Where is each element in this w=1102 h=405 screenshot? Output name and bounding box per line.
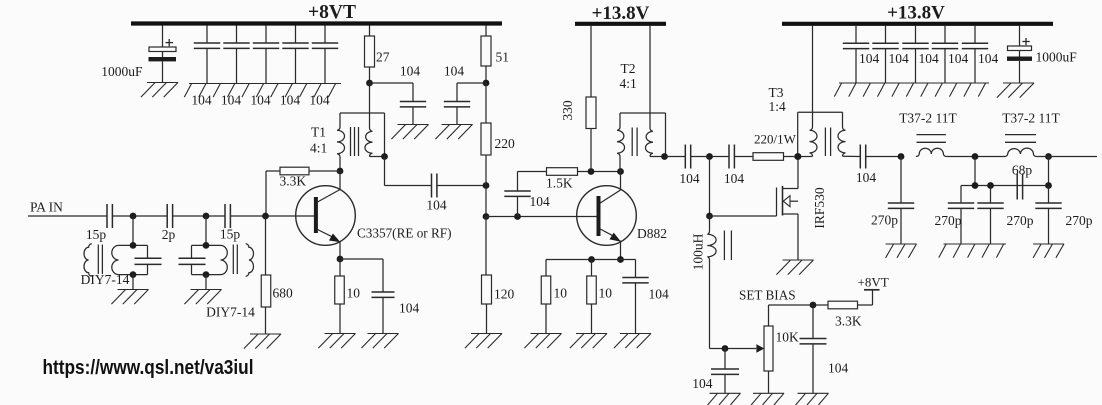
- svg-text:+13.8V: +13.8V: [592, 3, 650, 24]
- value label 104: [679, 171, 700, 186]
- resistor 220: [481, 83, 491, 186]
- svg-text:https://www.qsl.net/va3iul: https://www.qsl.net/va3iul: [43, 356, 254, 379]
- wire: [112, 215, 167, 217]
- value label 270p: [871, 213, 898, 228]
- ref label DIY7-14 #1: [81, 272, 130, 287]
- svg-text:IRF530: IRF530: [812, 187, 827, 229]
- svg-text:68p: 68p: [1012, 163, 1033, 178]
- svg-text:104: 104: [250, 93, 271, 108]
- value label 104 #5: [309, 93, 330, 108]
- wire PA IN: [28, 215, 107, 217]
- ground: [997, 83, 1034, 98]
- node Q1 base / 680: [262, 213, 269, 220]
- capacitor 104 bias #1: [711, 349, 739, 394]
- svg-text:104: 104: [859, 51, 880, 66]
- wire: [734, 156, 753, 158]
- capacitor C104 bank-right #4: [932, 26, 958, 83]
- svg-text:+8VT: +8VT: [858, 274, 889, 289]
- url text: [43, 356, 254, 379]
- ground bar left bank: [184, 84, 341, 98]
- wire T1 feed: [369, 83, 371, 128]
- node gate branch: [706, 153, 713, 160]
- capacitor C104 bank-right #1: [843, 26, 869, 83]
- value label 15p: [220, 227, 241, 242]
- node T3 primary: [794, 153, 801, 160]
- capacitor 104 Q2 base: [504, 172, 530, 217]
- transformer T3: [798, 112, 861, 156]
- wire: [340, 258, 383, 260]
- capacitor 15p series #2: [225, 204, 230, 228]
- ref label T1: [311, 125, 326, 140]
- value label 15p: [86, 227, 107, 242]
- capacitor C104 bank-right #5: [962, 26, 988, 83]
- ratio label 1:4: [769, 99, 787, 114]
- capacitor 270p #1: [888, 157, 914, 245]
- svg-text:104: 104: [692, 376, 713, 391]
- value label 1000uF: [101, 64, 143, 79]
- capacitor 1000uF final rail: [1007, 26, 1032, 83]
- svg-text:15p: 15p: [220, 227, 241, 242]
- wire Q2 base: [486, 216, 597, 218]
- svg-text:104: 104: [649, 287, 670, 302]
- resistor 3.3K feedback: [266, 167, 340, 216]
- net label +13.8V final: [887, 3, 945, 24]
- node tank2 top: [203, 242, 210, 249]
- net label +8VT bias: [858, 274, 889, 289]
- value label 104 right #4: [948, 51, 969, 66]
- value label 1000uF: [1036, 50, 1078, 65]
- svg-text:100uH: 100uH: [691, 233, 706, 270]
- node tank2 bottom: [203, 271, 210, 278]
- capacitor 104 final out: [860, 145, 865, 169]
- value label 104: [692, 376, 713, 391]
- wire: [370, 82, 414, 84]
- node: [588, 256, 595, 263]
- svg-text:+13.8V: +13.8V: [887, 3, 945, 24]
- wire: [546, 259, 636, 261]
- wire: [1048, 157, 1050, 186]
- inductor L2 T37-2: [1005, 135, 1037, 157]
- node 27/T1: [366, 80, 373, 87]
- ground: [751, 393, 784, 405]
- value label 220/1W: [754, 132, 797, 147]
- resistor 10 Q2 #1: [541, 260, 551, 334]
- capacitor 104 interstage: [432, 174, 437, 198]
- ground: [361, 334, 398, 349]
- ground: [435, 125, 472, 140]
- value label 104: [444, 64, 465, 79]
- svg-text:10K: 10K: [776, 330, 800, 345]
- ground: [318, 334, 355, 349]
- capacitor 104 Q2 emitter: [622, 260, 648, 334]
- value label 104 right #3: [919, 51, 940, 66]
- value label 104: [724, 171, 745, 186]
- svg-text:C3357(RE or RF): C3357(RE or RF): [357, 226, 452, 241]
- wire Q3 gate: [710, 215, 777, 217]
- wire: [230, 215, 314, 217]
- svg-text:330: 330: [560, 100, 575, 121]
- resistor 1.5K: [518, 168, 621, 176]
- svg-text:51: 51: [496, 50, 510, 65]
- ground: [465, 334, 502, 349]
- capacitor 2p series: [167, 204, 172, 228]
- node tank1 bottom: [130, 271, 137, 278]
- wire: [384, 157, 386, 186]
- tuned transformer DIY7-14 #1: [84, 244, 162, 276]
- tuned transformer DIY7-14 #2: [179, 244, 254, 276]
- resistor 220/1W: [753, 153, 798, 161]
- capacitor 68p: [1017, 174, 1022, 200]
- svg-text:DIY7-14: DIY7-14: [81, 272, 130, 287]
- resistor 330: [586, 26, 596, 172]
- svg-text:10: 10: [554, 286, 568, 301]
- transformer T2: [617, 113, 666, 172]
- capacitor 15p series #1: [107, 204, 112, 228]
- value label 51: [496, 50, 510, 65]
- svg-text:SET BIAS: SET BIAS: [739, 288, 796, 303]
- value label 270p: [935, 213, 962, 228]
- ground: [708, 393, 741, 405]
- svg-text:104: 104: [280, 93, 301, 108]
- svg-text:104: 104: [948, 51, 969, 66]
- value label 3.3K: [835, 314, 862, 329]
- power rail +13.8V (final): [782, 22, 1053, 26]
- wire: [162, 26, 164, 48]
- svg-text:104: 104: [889, 51, 910, 66]
- resistor 10 Q1: [335, 259, 345, 334]
- wire: [205, 216, 207, 245]
- value label 104: [649, 287, 670, 302]
- node Q2 emitter: [617, 256, 624, 263]
- ground wide LPF: [939, 244, 1006, 258]
- ground: [141, 83, 178, 98]
- capacitor C104 bank-left #3: [253, 26, 279, 84]
- value label 330: [560, 100, 575, 121]
- svg-text:1000uF: 1000uF: [1036, 50, 1078, 65]
- wire: [974, 157, 976, 186]
- resistor 120: [482, 217, 492, 334]
- node Q1 emitter: [337, 256, 344, 263]
- power rail +13.8V (driver): [575, 22, 666, 26]
- ground: [244, 334, 281, 349]
- svg-text:104: 104: [828, 361, 849, 376]
- node bypass cap: [514, 213, 521, 220]
- wire: [709, 157, 711, 217]
- ratio label 4:1: [620, 76, 637, 91]
- node 220/120/base: [483, 182, 490, 189]
- node LPF out: [1045, 153, 1052, 160]
- wire RF out: [1049, 156, 1098, 158]
- value label 270p: [1007, 213, 1034, 228]
- svg-text:T37-2 11T: T37-2 11T: [899, 111, 957, 126]
- node: [987, 182, 994, 189]
- svg-text:104: 104: [191, 93, 212, 108]
- ref label T37-2 11T #1: [899, 111, 957, 126]
- net label +8VT: [308, 2, 356, 23]
- capacitor 104 out #1: [685, 145, 690, 169]
- svg-text:10: 10: [347, 286, 361, 301]
- wire: [132, 275, 134, 290]
- resistor 680: [261, 216, 271, 334]
- resistor 10 Q2 #2: [587, 260, 597, 334]
- wire: [385, 185, 432, 187]
- part label IRF530: [812, 187, 827, 229]
- ground: [1033, 244, 1064, 258]
- svg-text:1000uF: 1000uF: [101, 64, 143, 79]
- svg-text:104: 104: [426, 198, 447, 213]
- value label 3.3K: [280, 174, 307, 189]
- ground: [391, 125, 428, 140]
- node tank1 top: [130, 242, 137, 249]
- node 330 bottom: [588, 168, 595, 175]
- ground: [570, 334, 607, 349]
- svg-text:104: 104: [221, 93, 242, 108]
- node T1 secondary: [381, 153, 388, 160]
- node Q2 collector: [617, 168, 624, 175]
- svg-text:4:1: 4:1: [620, 76, 637, 91]
- svg-text:D882: D882: [637, 226, 667, 241]
- transformer T1: [337, 113, 385, 171]
- svg-text:104: 104: [530, 194, 551, 209]
- capacitor 270p #2: [948, 186, 974, 245]
- svg-text:270p: 270p: [1007, 213, 1034, 228]
- value label 104: [399, 301, 420, 316]
- resistor 3.3K bias: [828, 289, 873, 309]
- svg-text:+8VT: +8VT: [308, 2, 356, 23]
- wire: [132, 216, 134, 245]
- node LPF in: [898, 153, 905, 160]
- svg-text:T37-2 11T: T37-2 11T: [1002, 111, 1060, 126]
- svg-text:270p: 270p: [1066, 213, 1093, 228]
- node tank2: [203, 213, 210, 220]
- wire SET BIAS: [769, 304, 829, 306]
- value label 104 right #5: [978, 51, 999, 66]
- svg-text:104: 104: [978, 51, 999, 66]
- svg-text:104: 104: [444, 64, 465, 79]
- wire: [666, 156, 686, 158]
- svg-text:104: 104: [679, 171, 700, 186]
- transistor Q2 D882: [577, 172, 637, 260]
- svg-text:PA IN: PA IN: [30, 200, 63, 215]
- svg-text:T2: T2: [621, 61, 636, 76]
- svg-text:T3: T3: [769, 85, 784, 100]
- capacitor C104 bank-left #1: [194, 26, 220, 84]
- value label 104 right #2: [889, 51, 910, 66]
- value label 680: [273, 286, 294, 301]
- ground: [886, 244, 917, 258]
- svg-text:2p: 2p: [162, 227, 176, 242]
- svg-text:3.3K: 3.3K: [280, 174, 307, 189]
- transistor Q3 IRF530: [777, 157, 799, 261]
- svg-text:T1: T1: [311, 125, 326, 140]
- capacitor 104 out #2: [729, 145, 734, 169]
- capacitor 104 Q1 emitter: [372, 259, 395, 334]
- wire: [457, 82, 486, 84]
- value label 104: [856, 170, 877, 185]
- inductor L1 T37-2: [916, 135, 947, 157]
- wire: [437, 185, 486, 187]
- wire: [710, 348, 757, 350]
- svg-text:15p: 15p: [86, 227, 107, 242]
- wire: [866, 156, 901, 158]
- svg-text:104: 104: [399, 301, 420, 316]
- value label 104: [828, 361, 849, 376]
- potentiometer 10K: [756, 305, 773, 393]
- value label 270p: [1066, 213, 1093, 228]
- wire: [1037, 156, 1049, 158]
- svg-text:DIY7-14: DIY7-14: [206, 305, 255, 320]
- ref label T37-2 11T #2: [1002, 111, 1060, 126]
- wire: [485, 186, 487, 217]
- wire T3 feed: [812, 26, 814, 127]
- value label 120: [494, 287, 515, 302]
- ref label T2: [621, 61, 636, 76]
- ground: [524, 334, 561, 349]
- ground bar right bank: [834, 83, 989, 97]
- value label 2p: [162, 227, 176, 242]
- ground: [796, 393, 829, 405]
- capacitor 104 at 51 node: [444, 83, 470, 125]
- node: [972, 182, 979, 189]
- resistor 51: [481, 26, 491, 84]
- svg-text:10: 10: [599, 286, 613, 301]
- value label 10: [347, 286, 361, 301]
- value label 10K: [776, 330, 800, 345]
- svg-text:3.3K: 3.3K: [835, 314, 862, 329]
- net label SET BIAS: [739, 288, 796, 303]
- value label 100uH: [691, 233, 706, 270]
- transistor Q1 C3357: [296, 171, 356, 259]
- supply stub +8VT: [864, 289, 880, 291]
- value label 10: [599, 286, 613, 301]
- node bias: [810, 302, 817, 309]
- inductor 100uH: [707, 216, 731, 349]
- value label 104: [400, 64, 421, 79]
- part label D882: [637, 226, 667, 241]
- svg-text:220: 220: [495, 136, 516, 151]
- ground: [776, 260, 813, 275]
- ground: [111, 290, 148, 305]
- node T2 out: [661, 153, 668, 160]
- svg-text:104: 104: [724, 171, 745, 186]
- svg-text:104: 104: [919, 51, 940, 66]
- ref label DIY7-14 #2: [206, 305, 255, 320]
- capacitor C104 bank-right #2: [872, 26, 898, 83]
- capacitor C104 bank-left #5: [312, 26, 338, 84]
- value label 68p: [1012, 163, 1033, 178]
- wire: [205, 275, 207, 290]
- svg-text:270p: 270p: [935, 213, 962, 228]
- svg-text:1.5K: 1.5K: [546, 176, 573, 191]
- svg-text:27: 27: [376, 50, 390, 65]
- capacitor C104 bank-left #4: [282, 26, 308, 84]
- value label 104: [426, 198, 447, 213]
- ground: [614, 334, 651, 349]
- node Q2 base junction: [483, 213, 490, 220]
- capacitor 1000uF input rail: [149, 39, 177, 83]
- ref label T3: [769, 85, 784, 100]
- wire: [173, 215, 225, 217]
- wire: [947, 156, 1005, 158]
- capacitor 270p #4: [1035, 186, 1061, 245]
- node 51/220: [483, 80, 490, 87]
- node T3/drain: [795, 153, 802, 160]
- part label C3357: [357, 226, 452, 241]
- resistor 27: [365, 26, 375, 84]
- value label 104 right #1: [859, 51, 880, 66]
- node T1 primary / Q1 collector: [337, 168, 344, 175]
- value label 10: [554, 286, 568, 301]
- node bias cap 1: [722, 345, 729, 352]
- power rail +8VT: [131, 21, 502, 25]
- capacitor 270p #3: [977, 186, 1003, 245]
- ground: [184, 290, 221, 305]
- wire T2 feed: [649, 26, 651, 128]
- node LPF mid: [972, 153, 979, 160]
- svg-text:220/1W: 220/1W: [754, 132, 797, 147]
- wire: [691, 156, 729, 158]
- capacitor 104 bias #2: [800, 305, 827, 393]
- value label 220: [495, 136, 516, 151]
- svg-text:1:4: 1:4: [769, 99, 787, 114]
- value label 104 #2: [221, 93, 242, 108]
- node tank1: [130, 213, 137, 220]
- svg-text:104: 104: [309, 93, 330, 108]
- capacitor C104 bank-left #2: [223, 26, 249, 84]
- value label 27: [376, 50, 390, 65]
- svg-text:104: 104: [400, 64, 421, 79]
- value label 104 #1: [191, 93, 212, 108]
- net label PA IN: [30, 200, 63, 215]
- svg-text:104: 104: [856, 170, 877, 185]
- svg-text:680: 680: [273, 286, 294, 301]
- net label +13.8V driver: [592, 3, 650, 24]
- capacitor 104 at 27 node: [400, 83, 426, 125]
- svg-text:4:1: 4:1: [310, 141, 327, 156]
- capacitor C104 bank-right #3: [902, 26, 928, 83]
- value label 104: [530, 194, 551, 209]
- ratio label 4:1: [310, 141, 327, 156]
- value label 1.5K: [546, 176, 573, 191]
- node gate: [706, 213, 713, 220]
- value label 104 #4: [280, 93, 301, 108]
- svg-text:120: 120: [494, 287, 515, 302]
- svg-text:270p: 270p: [871, 213, 898, 228]
- wire: [961, 185, 1049, 187]
- node: [1045, 182, 1052, 189]
- value label 104 #3: [250, 93, 271, 108]
